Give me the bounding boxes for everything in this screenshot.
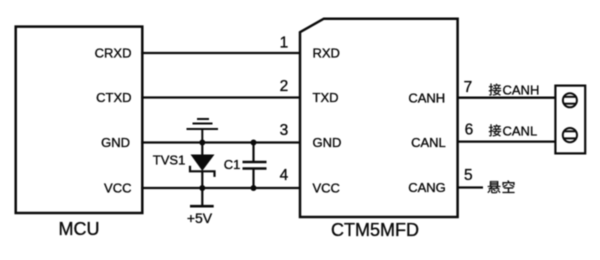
- svg-text:5: 5: [464, 167, 473, 184]
- svg-text:2: 2: [280, 78, 289, 95]
- wire pin 3 GND net: [141, 141, 300, 143]
- svg-text:C1: C1: [224, 157, 241, 172]
- svg-text:VCC: VCC: [313, 181, 340, 196]
- junction node C1 top on GND wire: [251, 140, 257, 146]
- junction node C1 bottom on VCC wire: [251, 185, 257, 191]
- svg-text:GND: GND: [313, 135, 342, 150]
- svg-text:TXD: TXD: [313, 90, 339, 105]
- svg-text:CRXD: CRXD: [95, 46, 132, 61]
- wire pin 4 VCC net: [141, 187, 300, 189]
- connector J1 terminal block: [555, 86, 585, 154]
- svg-text:4: 4: [280, 167, 289, 184]
- svg-text:7: 7: [464, 79, 473, 96]
- junction node TVS1 top on GND wire: [199, 140, 205, 146]
- TVS diode TVS1 (zener): [190, 143, 215, 207]
- annotation 接CANL: [489, 123, 537, 138]
- IC CTM5MFD box with chamfered corner: [300, 19, 458, 217]
- svg-text:CTXD: CTXD: [96, 90, 131, 105]
- screw terminal 2: [563, 128, 577, 142]
- svg-text:CANL: CANL: [503, 123, 538, 138]
- wire pin 2 CTXD to TXD: [141, 96, 300, 98]
- junction node TVS1 bottom on VCC wire: [199, 185, 205, 191]
- svg-text:+5V: +5V: [187, 210, 213, 226]
- svg-text:1: 1: [280, 35, 289, 52]
- screw terminal 1: [563, 93, 577, 107]
- svg-text:CANH: CANH: [503, 83, 540, 98]
- svg-text:TVS1: TVS1: [153, 153, 186, 168]
- svg-text:CANL: CANL: [411, 135, 446, 150]
- wire pin 5 CANG stub (floating): [458, 186, 483, 188]
- svg-text:VCC: VCC: [104, 181, 131, 196]
- svg-text:GND: GND: [101, 135, 130, 150]
- svg-text:6: 6: [465, 122, 474, 139]
- svg-text:RXD: RXD: [313, 46, 340, 61]
- wire pin 6 CANL to terminal: [458, 140, 556, 142]
- capacitor C1: [243, 143, 267, 189]
- wire pin 1 CRXD to RXD: [141, 52, 300, 54]
- svg-text:3: 3: [280, 122, 289, 139]
- svg-text:MCU: MCU: [59, 219, 100, 239]
- wire pin 7 CANH to terminal: [458, 97, 556, 99]
- annotation 悬空 (floating): [487, 180, 514, 193]
- svg-text:CTM5MFD: CTM5MFD: [331, 220, 419, 240]
- IC MCU box: [16, 27, 143, 213]
- svg-text:CANG: CANG: [408, 180, 446, 195]
- +5V supply terminal bar: [190, 205, 214, 208]
- ground (earth) symbol on GND net: [187, 119, 219, 143]
- svg-text:CANH: CANH: [408, 90, 445, 105]
- annotation 接CANH: [489, 83, 539, 98]
